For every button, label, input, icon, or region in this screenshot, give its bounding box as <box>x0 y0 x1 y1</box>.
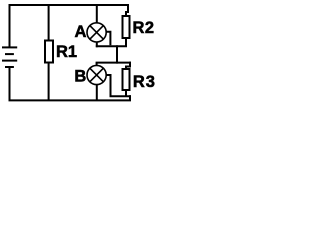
battery (2-cell, long plate top) <box>2 47 17 67</box>
wire battery positive terminal to top rail (left vertical) <box>9 4 11 47</box>
wire R1 top lead <box>48 4 50 40</box>
wire node rail B jog down into R3 top lead <box>126 62 130 69</box>
wire lamp A right lead down to node rail <box>106 32 110 46</box>
svg-text:A: A <box>75 23 87 41</box>
svg-text:R3: R3 <box>133 73 156 91</box>
wire lamp A bottom lead <box>97 42 98 47</box>
resistor R1 <box>45 41 53 63</box>
wire lamp A top lead <box>96 4 98 23</box>
svg-text:R2: R2 <box>133 19 155 37</box>
wire node rail B (horizontal, lamp B top / R3 top junction) <box>96 62 131 64</box>
wire bottom node rail down to bottom rail <box>129 95 131 100</box>
wire lamp B top lead <box>96 63 98 66</box>
wire R3 bottom lead <box>125 90 127 96</box>
wire top rail jog down into R2 top lead <box>126 4 128 16</box>
lamp B <box>87 65 106 84</box>
svg-text:R1: R1 <box>56 43 77 61</box>
svg-text:B: B <box>74 67 86 85</box>
wire bottom rail (horizontal) <box>9 99 132 101</box>
wire lamp B right lead down to bottom node rail <box>106 75 111 96</box>
label R1 digit serif foot <box>69 55 76 57</box>
resistor R2 <box>123 16 130 38</box>
wire bottom node rail (horizontal, lamp B / R3 bottom junction) <box>110 95 132 97</box>
wire lamp B bottom lead <box>96 84 98 100</box>
wire R2 bottom lead <box>125 39 127 46</box>
wire node rail A (horizontal, lamp A / R2 bottom junction) <box>96 45 127 47</box>
wire top rail (horizontal) <box>9 4 130 6</box>
wire battery negative terminal to bottom rail (left vertical) <box>9 67 11 101</box>
wire R1 bottom lead <box>48 63 50 100</box>
resistor R3 <box>123 69 130 90</box>
lamp A <box>87 23 106 42</box>
wire middle vertical between node rails <box>116 45 118 63</box>
